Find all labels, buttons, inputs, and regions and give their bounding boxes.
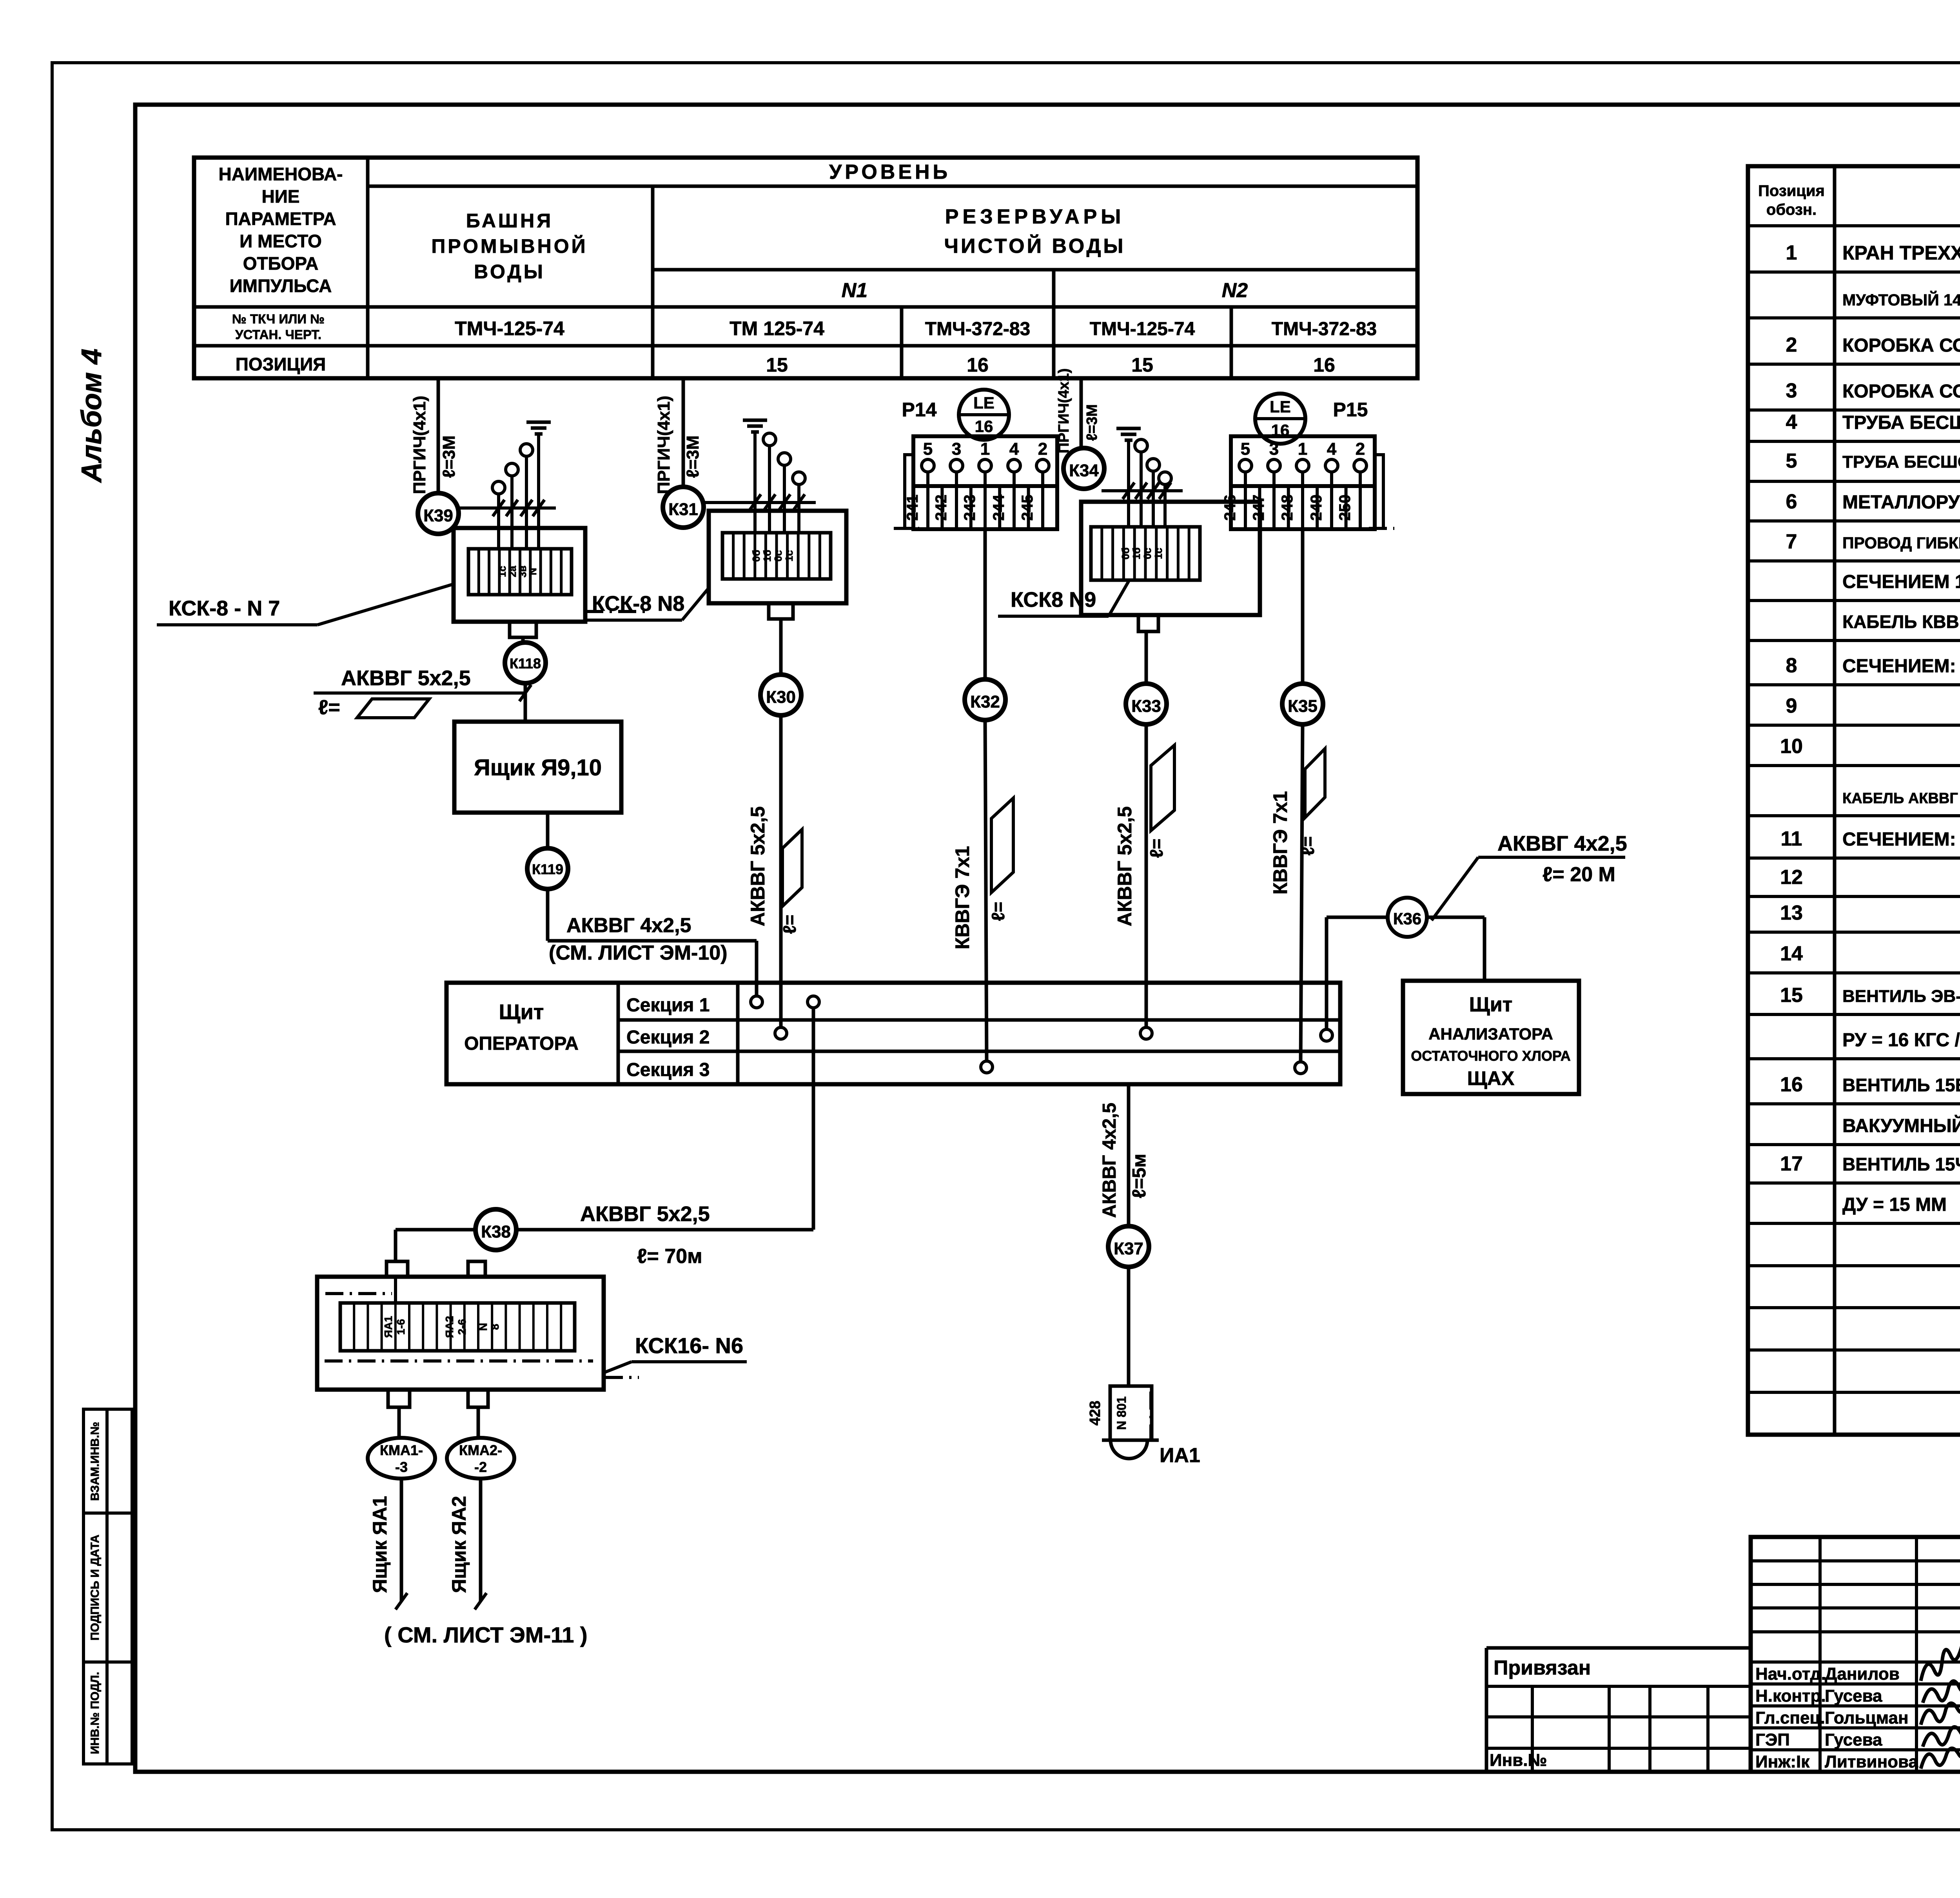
box КСК16-N6: [317, 1277, 604, 1390]
svg-text:УРОВЕНЬ: УРОВЕНЬ: [829, 161, 951, 183]
svg-text:15: 15: [766, 354, 788, 376]
terminal circles above КСК8 N9: [1135, 439, 1147, 452]
svg-text:КАБЕЛЬ КВВГ С МЕДНОЙ ЖИЛОЙ Г: КАБЕЛЬ КВВГ С МЕДНОЙ ЖИЛОЙ ГОСТ 1508-78Е: [1842, 611, 1960, 632]
junction circle К119: [527, 848, 568, 889]
wire К38 into КСК16: [394, 1230, 397, 1261]
svg-text:К39: К39: [423, 506, 453, 525]
parts table row lines: [1748, 224, 1960, 227]
svg-text:Секция 2: Секция 2: [626, 1027, 710, 1048]
svg-text:LE: LE: [1270, 397, 1291, 416]
cable gland top-left КСК16: [387, 1261, 408, 1277]
svg-text:ВЕНТИЛЬ 15Ч 8П2 ЗАПОРНЫЙ: ВЕНТИЛЬ 15Ч 8П2 ЗАПОРНЫЙ МУФТОВЫЙ: [1842, 1154, 1960, 1174]
junction circle К35: [1282, 684, 1323, 724]
svg-text:БАШНЯ: БАШНЯ: [466, 210, 553, 232]
horizontal wire К38: [396, 1228, 475, 1232]
svg-text:8: 8: [1786, 654, 1797, 677]
svg-text:15: 15: [1780, 984, 1803, 1007]
svg-text:ПРГИЧ(4х1): ПРГИЧ(4х1): [1056, 368, 1072, 454]
svg-text:КМА1-: КМА1-: [380, 1442, 423, 1458]
svg-text:13: 13: [1780, 902, 1803, 924]
binding table Привязан: [1485, 1648, 1488, 1772]
svg-text:242: 242: [933, 495, 950, 521]
title block signatures: [1921, 1636, 1960, 1681]
svg-text:248: 248: [1279, 495, 1296, 521]
box КСК8 N9: [1081, 502, 1260, 615]
svg-text:СЕЧЕНИЕМ:: СЕЧЕНИЕМ:: [1842, 656, 1956, 677]
wire slashes at К39 line: [493, 500, 505, 516]
cable gland bottom-left КСК16: [388, 1390, 410, 1407]
svg-text:СЕЧЕНИЕМ:: СЕЧЕНИЕМ:: [1842, 829, 1956, 850]
svg-text:ℓ= 20 М: ℓ= 20 М: [1543, 863, 1615, 886]
svg-text:16: 16: [967, 354, 989, 376]
binding table column lines: [1531, 1686, 1534, 1772]
svg-text:4: 4: [1786, 411, 1797, 434]
dash-dot tray mark at КСК-8-N7: [585, 610, 651, 613]
svg-text:АКВВГ 5х2,5: АКВВГ 5х2,5: [341, 666, 471, 690]
svg-text:К31: К31: [668, 500, 698, 519]
svg-text:АНАЛИЗАТОРА: АНАЛИЗАТОРА: [1428, 1025, 1553, 1043]
svg-text:Щит: Щит: [1469, 993, 1512, 1016]
svg-text:ГЭП: ГЭП: [1755, 1730, 1790, 1749]
svg-text:РЕЗЕРВУАРЫ: РЕЗЕРВУАРЫ: [945, 205, 1125, 228]
svg-text:КСК16- N6: КСК16- N6: [635, 1333, 743, 1358]
svg-text:ИМПУЛЬСА: ИМПУЛЬСА: [230, 276, 332, 296]
svg-text:241: 241: [904, 495, 921, 521]
title block upper-left grid: [1751, 1559, 1960, 1562]
wire Щит оператора to К37: [1127, 1084, 1131, 1226]
svg-text:3: 3: [1269, 439, 1279, 459]
svg-text:АКВВГ 5х2,5: АКВВГ 5х2,5: [747, 806, 769, 926]
wire КМА2-2 down to Ящик ЯА2: [479, 1479, 483, 1601]
length flag parallelogram (К33): [1151, 745, 1174, 831]
terminal strip КСК-8-N7: [468, 549, 572, 595]
svg-text:Позиция: Позиция: [1758, 182, 1825, 200]
svg-text:-3: -3: [395, 1459, 408, 1475]
svg-text:К37: К37: [1114, 1239, 1143, 1258]
svg-text:N2: N2: [1222, 279, 1248, 302]
svg-text:0с: 0с: [1142, 548, 1153, 559]
terminal block Р15 body: [1231, 436, 1375, 486]
svg-text:ТМЧ-372-83: ТМЧ-372-83: [925, 319, 1030, 339]
terminal К35 at Секция3: [1295, 1062, 1307, 1074]
box КСК-8-N7: [454, 528, 585, 622]
junction circle К33: [1126, 684, 1167, 724]
svg-text:Р15: Р15: [1333, 399, 1368, 421]
svg-text:0б: 0б: [1120, 548, 1131, 560]
parameter table frame: [194, 158, 1417, 378]
svg-text:ВЕНТИЛЬ ЭВ-2М ЗАПОРНЫЙ МУФТО: ВЕНТИЛЬ ЭВ-2М ЗАПОРНЫЙ МУФТОВЫЙ ДУ = 6 М…: [1842, 986, 1960, 1006]
left stamp box Подпись и дата: [83, 1513, 132, 1662]
svg-text:ПОДПИСЬ И ДАТА: ПОДПИСЬ И ДАТА: [89, 1535, 102, 1640]
svg-text:ВАКУУМНЫЙ ДУ = 10 ММ: ВАКУУМНЫЙ ДУ = 10 ММ: [1842, 1115, 1960, 1136]
wire КМА1-3 down to Ящик ЯА1: [400, 1479, 403, 1601]
dash-dot lines in КСК16: [325, 1292, 392, 1295]
wire inside КСК16 from gland: [394, 1277, 397, 1303]
wire slashes at К34 line: [1123, 483, 1134, 499]
svg-text:КСК-8 - N 7: КСК-8 - N 7: [169, 597, 280, 620]
left stamp box Взам.инв.№: [83, 1409, 132, 1513]
wire КСК16 to КМА2-2: [477, 1407, 480, 1441]
wire Секция1 down to К38 line: [812, 1007, 815, 1230]
svg-text:0б: 0б: [750, 550, 762, 562]
svg-text:ℓ=: ℓ=: [779, 915, 800, 934]
svg-text:2-6: 2-6: [456, 1319, 468, 1335]
wire КСК-8-N7 to К118: [521, 637, 525, 642]
svg-text:ИА1: ИА1: [1160, 1444, 1200, 1467]
svg-text:ℓ= 70м: ℓ= 70м: [637, 1245, 702, 1268]
wire Р15 cell 248 to К35: [1301, 529, 1305, 684]
terminal block Р14 cells: [913, 486, 1057, 529]
terminal at Секция1 (ЭМ-10): [751, 996, 762, 1008]
svg-text:1: 1: [1298, 439, 1307, 459]
svg-text:(СМ. ЛИСТ ЭМ-10): (СМ. ЛИСТ ЭМ-10): [549, 942, 728, 964]
svg-text:обозн.: обозн.: [1766, 201, 1817, 218]
terminal circles above КСК-8-N7: [492, 481, 505, 494]
svg-text:КСК-8 N8: КСК-8 N8: [592, 592, 684, 615]
wire К30 to Секция2: [779, 715, 783, 1028]
svg-text:ТМЧ-372-83: ТМЧ-372-83: [1272, 319, 1377, 339]
svg-text:ПОЗИЦИЯ: ПОЗИЦИЯ: [236, 354, 326, 374]
svg-text:КМА2-: КМА2-: [459, 1442, 502, 1458]
connector base line: [1102, 1439, 1159, 1442]
svg-text:ВОДЫ: ВОДЫ: [474, 261, 545, 283]
terminal К32 at Секция3: [981, 1061, 993, 1073]
svg-text:КОРОБКА СОЕДИНИТЕЛЬНАЯ КС: КОРОБКА СОЕДИНИТЕЛЬНАЯ КСК-16: [1842, 381, 1960, 402]
terminal block Р14 body: [913, 436, 1057, 486]
junction circle К39: [418, 493, 459, 534]
svg-text:ПАРАМЕТРА: ПАРАМЕТРА: [225, 209, 336, 229]
svg-text:11: 11: [1781, 827, 1802, 850]
svg-text:ℓ=: ℓ=: [1146, 838, 1167, 858]
svg-text:Инж:Iк: Инж:Iк: [1755, 1752, 1810, 1771]
svg-text:16: 16: [1313, 354, 1335, 376]
svg-text:К33: К33: [1131, 697, 1161, 716]
ground symbol drop3: [1116, 427, 1141, 430]
svg-text:2: 2: [1038, 439, 1047, 459]
svg-text:Ящик Я9,10: Ящик Я9,10: [474, 755, 602, 780]
svg-text:К32: К32: [970, 692, 1000, 711]
wire drop from table ТМ125-74 column: [682, 378, 685, 487]
wires through Р14 cells: [926, 472, 929, 528]
svg-text:ВЕНТИЛЬ 15Б50Р - 3М ЗАПОРНЫ: ВЕНТИЛЬ 15Б50Р - 3М ЗАПОРНЫЙ СИЛЬФОННЫЙ: [1842, 1075, 1960, 1095]
wires into КСК-8-N7: [497, 494, 500, 549]
svg-text:ОПЕРАТОРА: ОПЕРАТОРА: [464, 1033, 579, 1054]
svg-text:Ящик ЯА2: Ящик ЯА2: [448, 1496, 470, 1593]
wire К33 to Секция2: [1145, 724, 1148, 1028]
junction line from К39: [459, 506, 556, 510]
cable gland top-right КСК16: [468, 1261, 485, 1277]
junction circle К38: [475, 1209, 516, 1250]
svg-text:247: 247: [1250, 495, 1267, 521]
wire К119 to Щит оператора Секция1: [546, 889, 550, 941]
junction line from К34: [1102, 489, 1183, 492]
svg-text:14: 14: [1780, 942, 1803, 965]
length flag parallelogram (К32): [991, 798, 1013, 893]
left stamp box Инв.№ подл.: [83, 1662, 132, 1764]
terminal strip КСК-8 N8: [722, 533, 831, 579]
svg-text:( СМ. ЛИСТ ЭМ-11 ): ( СМ. ЛИСТ ЭМ-11 ): [384, 1622, 588, 1647]
svg-text:КРАН ТРЕХХОДОВОЙ НАТЯЖНОЙ: КРАН ТРЕХХОДОВОЙ НАТЯЖНОЙ: [1842, 241, 1960, 264]
Щит оператора row lines: [618, 1018, 1340, 1022]
svg-text:5: 5: [1786, 450, 1797, 472]
svg-text:-2: -2: [474, 1459, 487, 1475]
svg-text:ℓ=: ℓ=: [318, 696, 340, 719]
svg-text:1б: 1б: [1131, 548, 1142, 560]
svg-text:К35: К35: [1288, 697, 1318, 716]
junction circle К37: [1108, 1226, 1149, 1267]
wire К35 to Секция3: [1301, 724, 1303, 1062]
svg-text:КОРОБКА СОЕДИНИТЕЛЬНАЯ КС: КОРОБКА СОЕДИНИТЕЛЬНАЯ КСК-8: [1842, 335, 1960, 356]
bracket right of Р15: [1375, 455, 1383, 527]
svg-text:4: 4: [1327, 439, 1337, 459]
svg-text:10: 10: [1780, 735, 1803, 758]
junction circle К36: [1327, 916, 1388, 919]
svg-text:3: 3: [952, 439, 961, 459]
terminal circles Р14: [922, 459, 934, 472]
svg-text:Привязан: Привязан: [1494, 1657, 1591, 1679]
svg-text:АКВВГ 4х2,5: АКВВГ 4х2,5: [566, 914, 691, 937]
svg-text:МУФТОВЫЙ 14М1 ; ДУ = 15: МУФТОВЫЙ 14М1 ; ДУ = 15ММ РУ = 16КГС/СМ²: [1842, 291, 1960, 309]
svg-text:Секция 3: Секция 3: [626, 1060, 710, 1080]
wire Ящик to К119: [546, 813, 550, 848]
svg-text:ПРОМЫВНОЙ: ПРОМЫВНОЙ: [431, 235, 588, 257]
svg-text:ОТБОРА: ОТБОРА: [243, 253, 319, 274]
svg-text:ℓ=5м: ℓ=5м: [1129, 1154, 1150, 1198]
wire drop from table Башня column: [437, 378, 440, 493]
leader from К36 to cable label: [1432, 857, 1478, 920]
svg-text:17: 17: [1780, 1152, 1803, 1175]
ground symbol drop1: [526, 421, 551, 424]
svg-text:12: 12: [1780, 866, 1803, 889]
svg-text:АКВВГ 4х2,5: АКВВГ 4х2,5: [1099, 1103, 1120, 1218]
svg-text:7: 7: [1786, 530, 1797, 553]
label line АКВВГ 5х2,5 (К118): [314, 691, 525, 695]
svg-text:250: 250: [1336, 495, 1354, 521]
parts table column lines: [1833, 166, 1837, 1435]
svg-text:И МЕСТО: И МЕСТО: [240, 231, 322, 251]
connector box 428 N801: [1110, 1386, 1152, 1440]
svg-text:ℓ=: ℓ=: [988, 902, 1008, 921]
svg-text:1с: 1с: [783, 550, 795, 562]
svg-text:244: 244: [990, 494, 1007, 521]
svg-text:ЯА2: ЯА2: [443, 1316, 456, 1338]
cable gland bottom-right КСК16: [468, 1390, 488, 1407]
svg-text:3: 3: [1786, 379, 1797, 402]
svg-text:ТРУБА БЕСШОВНАЯ 14Х2-20 ГОСТ: ТРУБА БЕСШОВНАЯ 14Х2-20 ГОСТ 8734-75: [1842, 412, 1960, 433]
svg-text:Гусева: Гусева: [1825, 1730, 1882, 1749]
junction circle К31: [663, 487, 704, 528]
terminal К36 at Секция2: [1321, 1029, 1332, 1041]
svg-text:УСТАН. ЧЕРТ.: УСТАН. ЧЕРТ.: [235, 327, 321, 342]
svg-text:ПРГИЧ(4х1): ПРГИЧ(4х1): [410, 396, 429, 494]
svg-text:1с: 1с: [1152, 548, 1164, 559]
svg-text:0с: 0с: [772, 550, 784, 562]
title block outer box: [1751, 1537, 1960, 1772]
svg-text:Н.контр.: Н.контр.: [1755, 1686, 1826, 1706]
terminal К30 at Секция2: [775, 1027, 787, 1039]
svg-text:ЧИСТОЙ ВОДЫ: ЧИСТОЙ ВОДЫ: [944, 234, 1126, 258]
svg-text:ИНВ.№ ПОДЛ.: ИНВ.№ ПОДЛ.: [89, 1672, 102, 1754]
box Щит анализатора ЩАХ: [1403, 981, 1579, 1094]
svg-text:ℓ=3М: ℓ=3М: [1084, 404, 1100, 441]
svg-text:Гл.спец.: Гл.спец.: [1755, 1708, 1825, 1727]
wire К37 to connector ИА1: [1127, 1267, 1131, 1386]
svg-text:АКВВГ 5х2,5: АКВВГ 5х2,5: [1114, 806, 1136, 926]
svg-text:5: 5: [923, 439, 933, 459]
wire Р14 cell 243 to К32: [984, 529, 987, 679]
svg-text:К119: К119: [532, 861, 563, 877]
terminal at Секция1 (К38 run): [808, 996, 819, 1008]
cable gland below КСК-8-N7: [510, 622, 536, 637]
svg-text:LE: LE: [973, 394, 995, 412]
box Щит оператора: [446, 983, 1340, 1084]
ground symbol drop2: [743, 419, 767, 422]
svg-text:СЕЧЕНИЕМ 1 ММ²: СЕЧЕНИЕМ 1 ММ²: [1842, 572, 1960, 592]
bracket left of Р14: [905, 455, 913, 527]
svg-text:ПРГИЧ(4х1): ПРГИЧ(4х1): [654, 396, 673, 494]
svg-text:1: 1: [980, 439, 990, 459]
length flag parallelogram (К118): [357, 699, 429, 718]
svg-text:249: 249: [1308, 495, 1325, 521]
svg-text:Секция 1: Секция 1: [626, 995, 710, 1016]
svg-text:Нач.отд.: Нач.отд.: [1755, 1664, 1826, 1684]
terminal К33 at Секция2: [1140, 1027, 1152, 1039]
svg-text:1б: 1б: [761, 550, 773, 562]
svg-text:К34: К34: [1069, 461, 1099, 480]
svg-text:К118: К118: [510, 655, 541, 671]
wires into КСК8 N9: [1127, 439, 1130, 527]
terminal circles above КСК-8 N8: [763, 433, 776, 446]
svg-text:КВВГЭ 7х1: КВВГЭ 7х1: [1269, 791, 1291, 895]
length flag parallelogram (К30): [782, 829, 802, 906]
junction circle К34: [1063, 448, 1104, 489]
parameter table grid lines: [366, 158, 370, 378]
svg-text:N: N: [527, 568, 539, 575]
junction circle К32: [965, 679, 1005, 720]
svg-text:АКВВГ 5х2,5: АКВВГ 5х2,5: [580, 1202, 710, 1226]
svg-text:Ящик ЯА1: Ящик ЯА1: [369, 1496, 391, 1593]
instrument circle LE 16 (Р15): [1255, 394, 1305, 444]
junction circle К30: [760, 675, 801, 715]
svg-text:ТМЧ-125-74: ТМЧ-125-74: [1090, 319, 1195, 339]
svg-text:16: 16: [975, 417, 993, 435]
svg-text:КВВГЭ 7х1: КВВГЭ 7х1: [951, 846, 973, 949]
svg-text:Данилов: Данилов: [1825, 1664, 1900, 1684]
svg-text:К30: К30: [766, 688, 796, 707]
svg-text:ОСТАТОЧНОГО ХЛОРА: ОСТАТОЧНОГО ХЛОРА: [1411, 1048, 1570, 1064]
svg-text:НИЕ: НИЕ: [262, 186, 300, 207]
svg-text:N: N: [477, 1323, 489, 1331]
dash-dot mark on connector: [1149, 1392, 1152, 1439]
wire КСК-8 N8 to К30: [779, 619, 783, 675]
terminal circles Р15: [1239, 459, 1252, 472]
svg-text:ℓ=: ℓ=: [1298, 836, 1318, 855]
length flag parallelogram (К35): [1305, 749, 1325, 818]
box КСК-8 N8: [709, 511, 846, 603]
svg-text:246: 246: [1221, 495, 1239, 521]
svg-text:N1: N1: [842, 279, 867, 302]
wire КСК8 N9 to К33: [1145, 631, 1148, 684]
wire К32 to Секция3: [985, 720, 987, 1062]
cable gland below КСК8 N9: [1138, 615, 1158, 631]
svg-text:КАБЕЛЬ АКВВГ С АЛЮМИНИЕВОЙ: КАБЕЛЬ АКВВГ С АЛЮМИНИЕВОЙ ЖИЛОЙ ГОСТ 15…: [1842, 789, 1960, 807]
terminal block Р15 cells: [1231, 486, 1375, 529]
svg-text:Альбом 4: Альбом 4: [76, 348, 107, 483]
svg-text:ℓ=3М: ℓ=3М: [439, 435, 459, 478]
Щит оператора column dividers: [617, 983, 620, 1084]
svg-text:2: 2: [1786, 334, 1797, 356]
svg-text:ТМ 125-74: ТМ 125-74: [730, 318, 824, 339]
svg-text:5: 5: [1241, 439, 1250, 459]
svg-text:ТМЧ-125-74: ТМЧ-125-74: [455, 318, 564, 339]
svg-text:КСК8 N9: КСК8 N9: [1011, 588, 1096, 611]
svg-text:Гольцман: Гольцман: [1825, 1708, 1909, 1727]
svg-text:6: 6: [1786, 490, 1797, 513]
svg-text:428: 428: [1087, 1401, 1103, 1425]
junction circle К118: [505, 642, 546, 683]
svg-text:№ ТКЧ ИЛИ №: № ТКЧ ИЛИ №: [232, 312, 325, 326]
svg-text:1: 1: [1786, 241, 1797, 264]
svg-text:8: 8: [489, 1324, 501, 1330]
wires into КСК-8 N8: [753, 431, 757, 533]
svg-text:Гусева: Гусева: [1825, 1686, 1882, 1706]
cable gland below КСК-8 N8: [769, 603, 793, 619]
terminal strip КСК8 N9: [1091, 527, 1200, 580]
title block line Привязан top: [1486, 1646, 1751, 1650]
svg-text:16: 16: [1780, 1073, 1803, 1096]
svg-text:МЕТАЛЛОРУКАВ Р3-Ц-Х29 ТУ22: МЕТАЛЛОРУКАВ Р3-Ц-Х29 ТУ22-5370-83Е: [1842, 492, 1960, 513]
svg-text:НАИМЕНОВА-: НАИМЕНОВА-: [219, 164, 343, 184]
svg-text:243: 243: [961, 495, 978, 521]
oval label КМА1--3: [368, 1438, 435, 1479]
svg-text:ЯА1: ЯА1: [382, 1316, 394, 1338]
svg-text:ВЗАМ.ИНВ.№: ВЗАМ.ИНВ.№: [89, 1422, 102, 1501]
svg-text:ДУ = 15 ММ: ДУ = 15 ММ: [1842, 1194, 1947, 1215]
junction line from К31: [704, 501, 816, 504]
terminal strip КСК16-N6: [340, 1303, 575, 1351]
wires through Р15 cells: [1244, 472, 1247, 528]
svg-text:245: 245: [1019, 495, 1036, 521]
wire К118 to Ящик: [524, 683, 527, 722]
svg-text:К38: К38: [481, 1222, 511, 1241]
svg-text:Щит: Щит: [499, 1000, 544, 1024]
svg-text:ПРОВОД ГИБКИЙ ПРГИ С МЕДНОЙ: ПРОВОД ГИБКИЙ ПРГИ С МЕДНОЙ ЖИЛОЙ ГОСТ20…: [1842, 534, 1960, 552]
oval label КМА2--2: [447, 1438, 514, 1479]
svg-text:РУ = 16 КГС / СМ²: РУ = 16 КГС / СМ²: [1842, 1030, 1960, 1051]
svg-text:ℓ=3М: ℓ=3М: [683, 435, 702, 478]
box Ящик Я9,10: [454, 722, 621, 813]
svg-text:Р14: Р14: [902, 399, 937, 421]
parts table frame: [1748, 166, 1960, 1435]
svg-text:9: 9: [1786, 695, 1797, 717]
wire slashes at К31 line: [749, 494, 761, 511]
svg-text:N 801: N 801: [1114, 1396, 1129, 1430]
instrument circle LE 16 (Р14): [959, 390, 1009, 440]
wire drop from table ТМЧ-125-74 N2 column: [1080, 378, 1083, 448]
title block sign rows: [1751, 1682, 1960, 1686]
connector dome ИА1: [1111, 1440, 1147, 1459]
svg-text:15: 15: [1131, 354, 1153, 376]
svg-text:АКВВГ 4х2,5: АКВВГ 4х2,5: [1497, 832, 1627, 855]
svg-text:2: 2: [1356, 439, 1365, 459]
svg-text:ЩАХ: ЩАХ: [1467, 1067, 1514, 1089]
svg-text:1-6: 1-6: [395, 1319, 407, 1335]
svg-text:4: 4: [1009, 439, 1019, 459]
wire КСК16 to КМА1-3: [397, 1407, 401, 1441]
svg-text:К36: К36: [1393, 909, 1421, 928]
svg-text:Инв.№: Инв.№: [1490, 1751, 1547, 1770]
svg-text:Литвинова: Литвинова: [1825, 1752, 1918, 1771]
